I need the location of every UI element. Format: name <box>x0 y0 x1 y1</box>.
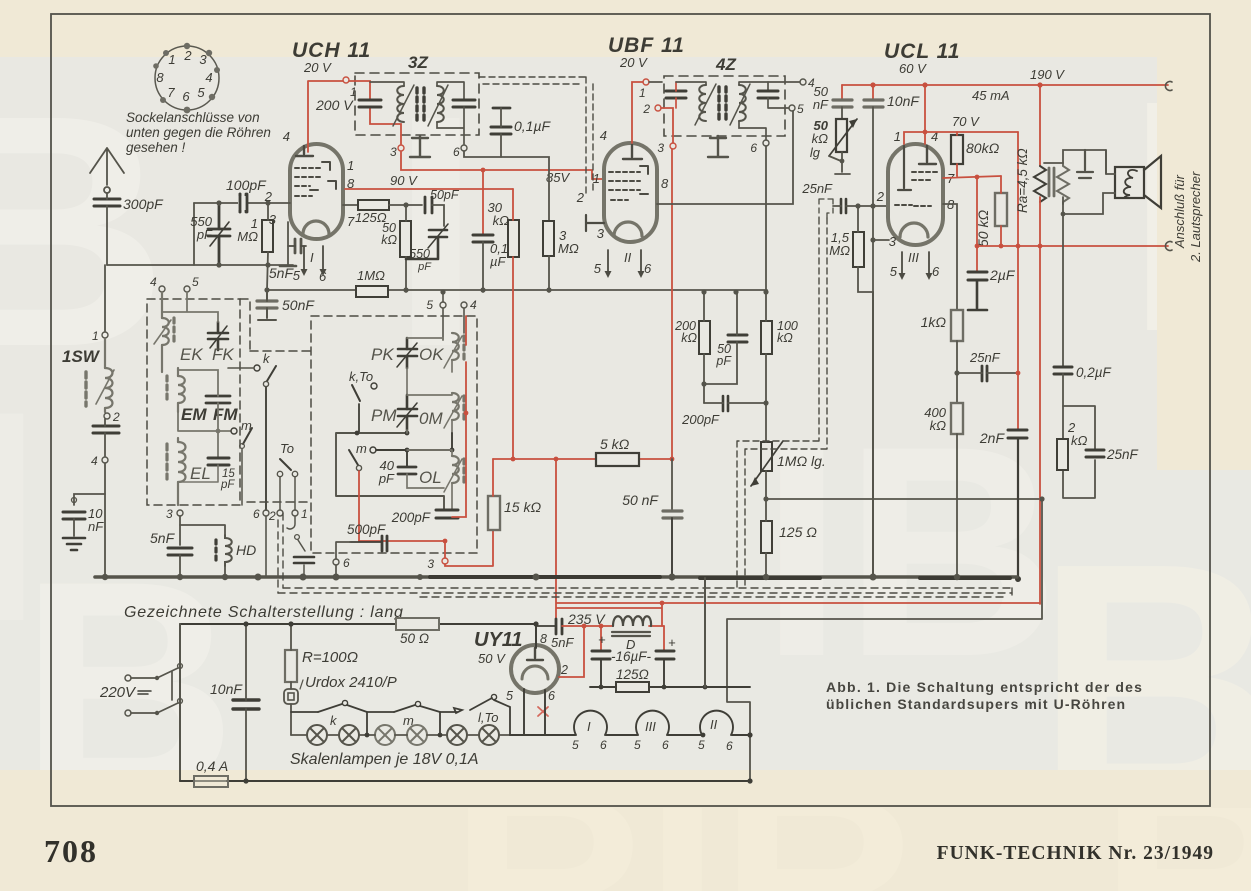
svg-text:2: 2 <box>576 190 585 205</box>
svg-text:8: 8 <box>156 70 164 85</box>
red wire pin7 <box>943 176 1001 178</box>
wire k to box <box>228 367 254 369</box>
fuse 0,4A <box>194 776 228 787</box>
svg-text:5: 5 <box>634 738 641 752</box>
wire EK-FK top <box>162 292 218 322</box>
pin7 wire <box>343 204 358 206</box>
capacitor 50nF on 1M line <box>257 301 277 308</box>
svg-text:200pF: 200pF <box>681 412 720 427</box>
red wire osc feedback <box>359 316 466 558</box>
svg-text:8: 8 <box>661 176 669 191</box>
svg-text:4: 4 <box>91 454 98 468</box>
svg-text:+: + <box>598 632 606 647</box>
tube UBF11 top cap <box>623 145 642 159</box>
tube UCL11 pin 5 6 arrows <box>899 252 933 280</box>
svg-text:3: 3 <box>166 507 173 521</box>
red wire 85V <box>401 152 603 179</box>
tube socket diagram <box>155 46 219 110</box>
coil 1SW <box>96 339 114 412</box>
svg-text:5: 5 <box>293 268 301 283</box>
resistor 125 ohm <box>358 200 389 210</box>
terminal hook bottom <box>1165 242 1172 251</box>
filament II <box>700 711 733 735</box>
4Z wire to t4 <box>768 81 800 83</box>
red drop to AF lines <box>556 459 1040 626</box>
wire EM FM <box>178 370 231 457</box>
svg-text:0M: 0M <box>419 409 443 428</box>
svg-text:2. Lautsprecher: 2. Lautsprecher <box>1188 171 1203 263</box>
speaker driver box <box>1115 167 1144 198</box>
terminal 4 of box <box>159 286 165 292</box>
svg-text:kΩ: kΩ <box>381 233 397 247</box>
svg-text:708: 708 <box>44 833 98 869</box>
coil EM <box>178 368 185 412</box>
svg-text:6: 6 <box>453 145 460 159</box>
svg-text:Abb. 1. Die Schaltung entsp: Abb. 1. Die Schaltung entspricht der des <box>826 679 1143 695</box>
svg-text:m: m <box>403 713 414 728</box>
svg-text:pF: pF <box>417 261 432 273</box>
svg-text:lg: lg <box>810 145 821 160</box>
capacitor 2nF <box>1017 373 1019 429</box>
red bus dots <box>870 82 875 87</box>
UY11 anode <box>527 648 543 660</box>
capacitor 25nF tone <box>1086 450 1104 457</box>
filter bottom wire <box>590 659 750 687</box>
tube UCH11 top cap <box>296 146 313 156</box>
caption Sockelanschluesse <box>126 110 271 155</box>
resistor 80k <box>951 135 963 164</box>
capacitor 5nF UY <box>556 619 562 634</box>
svg-text:Urdox 2410/P: Urdox 2410/P <box>305 674 397 691</box>
svg-text:4: 4 <box>600 128 607 143</box>
svg-text:2: 2 <box>560 663 568 677</box>
tube UBF11 cathode arc <box>614 222 642 236</box>
resistor 1,5M <box>853 232 864 267</box>
tube UBF11 pin 5 6 arrows <box>605 250 645 278</box>
svg-text:UY11: UY11 <box>474 629 523 651</box>
red wire top cap <box>924 85 926 144</box>
resistor 1M horizontal <box>356 286 388 297</box>
4Z terminal 6 <box>763 140 769 146</box>
svg-text:25nF: 25nF <box>1106 447 1139 462</box>
capacitor 300pF <box>94 199 120 206</box>
wire 10nF down <box>872 107 874 292</box>
trimmer FK <box>208 322 228 350</box>
circle terminal 10nF <box>72 498 77 503</box>
wires PK OK <box>407 338 452 395</box>
svg-text:2: 2 <box>112 410 120 424</box>
4Z dashed box <box>664 76 785 136</box>
red wire t3 to 15k <box>445 530 493 566</box>
red wire 30k <box>512 189 514 459</box>
svg-text:I: I <box>0 348 43 684</box>
capacitor 10nF mains <box>233 700 259 709</box>
capacitor 0,2uF <box>1054 367 1072 374</box>
dashed notch to k switch <box>240 299 312 351</box>
svg-text:5: 5 <box>192 275 199 289</box>
capacitor 25nF grid <box>841 199 846 213</box>
antenna <box>90 148 124 193</box>
svg-text:5: 5 <box>572 738 579 752</box>
trimmer PK <box>397 338 417 368</box>
tube UCL11 pin1 inner <box>898 146 911 190</box>
grid wire pin2 <box>194 202 290 204</box>
4Z wire to t5 <box>768 98 789 108</box>
capacitor 200pF coupling <box>723 396 728 411</box>
coil EL <box>178 438 186 505</box>
svg-text:kΩ: kΩ <box>777 331 793 345</box>
node 4 <box>102 457 108 463</box>
trimmer PM <box>397 395 417 430</box>
wire AF out <box>766 498 1042 500</box>
node 2 <box>104 413 110 419</box>
wire 15pF <box>178 465 218 482</box>
hook below terminal1 <box>287 516 295 529</box>
UY11 cathode arc <box>522 666 548 679</box>
svg-text:4: 4 <box>150 275 157 289</box>
svg-text:60 V: 60 V <box>899 61 927 76</box>
svg-text:0,2µF: 0,2µF <box>1076 365 1112 380</box>
svg-text:2µF: 2µF <box>989 267 1016 283</box>
power loop top wire <box>180 623 536 625</box>
resistor 1M vertical <box>262 220 273 252</box>
svg-text:2: 2 <box>268 509 276 523</box>
shield box 25nF <box>819 199 833 218</box>
svg-text:1kΩ: 1kΩ <box>921 314 947 330</box>
wire m contact <box>376 433 452 467</box>
svg-text:MΩ: MΩ <box>829 243 850 258</box>
resistor Ra zigzag <box>1039 85 1041 166</box>
svg-text:5: 5 <box>506 689 513 703</box>
svg-text:pF: pF <box>715 354 732 368</box>
svg-text:125 Ω: 125 Ω <box>779 524 817 540</box>
coil OK <box>444 333 462 368</box>
resistor 400k <box>951 403 963 434</box>
svg-text:UBF 11: UBF 11 <box>608 34 685 57</box>
svg-text:20 V: 20 V <box>619 55 648 70</box>
shielded lead dashes 3Z-UBF <box>479 77 593 195</box>
3Z secondary coil <box>428 85 448 126</box>
svg-text:4: 4 <box>283 129 290 144</box>
wire antenna down <box>106 193 108 265</box>
svg-text:1MΩ: 1MΩ <box>357 268 385 283</box>
dial lamps <box>307 725 359 745</box>
svg-text:6: 6 <box>644 261 652 276</box>
4Z right capacitor <box>758 91 778 98</box>
capacitor 10nF <box>872 85 874 99</box>
svg-text:1SW: 1SW <box>62 347 101 366</box>
4Z terminal 1 <box>643 79 649 85</box>
red wire AVC down <box>671 149 673 459</box>
4Z primary coil <box>695 84 716 125</box>
capacitor 50nF top <box>841 85 843 99</box>
wires OL <box>407 450 452 509</box>
svg-text:550: 550 <box>409 247 430 261</box>
svg-text:m: m <box>356 441 367 456</box>
wire left column <box>104 265 106 331</box>
resistor 200k <box>699 321 710 354</box>
svg-text:MΩ: MΩ <box>558 241 579 256</box>
svg-text:3: 3 <box>597 226 605 241</box>
svg-text:kΩ: kΩ <box>493 213 510 228</box>
svg-text:Gezeichnete Schalterstellung: Gezeichnete Schalterstellung : lang <box>124 604 404 621</box>
svg-text:6: 6 <box>662 738 669 752</box>
svg-text:6: 6 <box>750 141 757 155</box>
3Z dashed box <box>355 73 479 135</box>
coil EK <box>154 292 171 372</box>
svg-text:20 V: 20 V <box>303 60 332 75</box>
wire top to UY11 <box>535 624 537 648</box>
3Z terminal 3 <box>398 145 404 151</box>
wire terminal3 to 5nF <box>179 516 181 545</box>
node 1 <box>102 332 108 338</box>
tube UBF11 diode plate <box>586 215 604 231</box>
box terminal 5 <box>440 302 446 308</box>
coil 1SW core dashes <box>84 372 87 406</box>
svg-text:6: 6 <box>548 689 555 703</box>
svg-text:I: I <box>587 719 591 734</box>
wire terminal6 to bus <box>265 516 267 577</box>
resistor 30k red feed <box>508 220 519 257</box>
terminal hook top <box>1165 81 1172 90</box>
svg-text:5 kΩ: 5 kΩ <box>600 436 630 452</box>
transformer top wire <box>1044 150 1106 174</box>
svg-text:MΩ: MΩ <box>237 229 258 244</box>
svg-text:PK: PK <box>371 345 394 364</box>
speaker driver coil <box>1124 170 1137 198</box>
4Z terminal 3 <box>670 143 676 149</box>
svg-text:50 nF: 50 nF <box>622 492 659 508</box>
terminal 6 osc <box>333 559 339 565</box>
4Z terminal 4 <box>800 79 806 85</box>
resistor 50k grey <box>995 193 1007 226</box>
wire t6 down to detector line <box>765 146 767 292</box>
svg-text:III: III <box>908 250 919 265</box>
capacitor 200pF osc <box>436 510 458 518</box>
wire HD <box>180 525 225 577</box>
3Z terminal 6 <box>461 145 467 151</box>
wire AF line join <box>1039 496 1044 501</box>
core dashes OL <box>462 459 465 482</box>
svg-text:3: 3 <box>889 234 897 249</box>
svg-text:5nF: 5nF <box>150 530 176 546</box>
capacitor 40pF <box>398 467 416 474</box>
capacitor near bus <box>294 557 314 563</box>
lamp shorting switch l,To <box>470 698 492 710</box>
tube UCH11 grids <box>295 162 336 196</box>
electrolytic 16uF right <box>663 626 665 650</box>
3Z secondary bottom <box>437 107 464 144</box>
svg-text:HD: HD <box>236 542 256 558</box>
svg-text:Skalenlampen je 18V 0,1A: Skalenlampen je 18V 0,1A <box>290 751 479 768</box>
urdox symbol <box>284 689 298 704</box>
terminal 2 <box>277 510 283 516</box>
tube UBF11 envelope <box>604 143 657 242</box>
filament I <box>574 711 607 735</box>
svg-text:1MΩ lg.: 1MΩ lg. <box>777 453 826 469</box>
switch k <box>254 365 260 371</box>
svg-text:500pF: 500pF <box>347 522 386 537</box>
core dashes OM <box>462 396 465 419</box>
svg-text:0,1µF: 0,1µF <box>514 118 552 134</box>
dashed link to osc box <box>247 501 308 503</box>
svg-text:4Z: 4Z <box>715 55 736 74</box>
svg-text:3Z: 3Z <box>408 53 428 72</box>
choke HD <box>225 535 232 566</box>
capacitor 10nF left <box>63 512 85 519</box>
svg-text:kΩ: kΩ <box>1071 433 1088 448</box>
tube UCL11 envelope <box>888 144 943 245</box>
svg-text:3: 3 <box>199 52 207 67</box>
resistor R=100 urdox <box>285 650 297 682</box>
filament chain <box>545 734 750 736</box>
svg-text:EL: EL <box>190 464 211 483</box>
wire down to bus <box>872 292 874 577</box>
wire grid node down <box>193 203 195 265</box>
wire bus to filter <box>704 578 706 687</box>
svg-text:50 V: 50 V <box>478 651 506 666</box>
svg-text:k,To: k,To <box>349 369 373 384</box>
svg-text:3: 3 <box>657 141 664 155</box>
terminal 3 <box>177 510 183 516</box>
svg-text:Ra=4,5 kΩ: Ra=4,5 kΩ <box>1015 148 1030 213</box>
red wire 246 row <box>977 245 1168 247</box>
svg-text:-16µF-: -16µF- <box>611 649 652 664</box>
trimmer 550pF <box>208 203 230 265</box>
junction 3M detector <box>546 287 551 292</box>
4Z secondary coil <box>730 84 750 125</box>
red wire t2 to t3 <box>661 108 673 143</box>
resistor 50 ohm <box>396 618 439 630</box>
tube UY11 <box>511 645 559 693</box>
svg-text:10nF: 10nF <box>887 93 920 109</box>
svg-text:5: 5 <box>890 264 898 279</box>
svg-text:6: 6 <box>932 264 940 279</box>
svg-text:III: III <box>645 719 656 734</box>
svg-text:1: 1 <box>894 129 901 144</box>
svg-text:25nF: 25nF <box>969 350 1001 365</box>
box terminal 4 <box>461 302 467 308</box>
wire 10nF to ground <box>73 519 75 536</box>
svg-text:µF: µF <box>490 254 506 269</box>
svg-text:10nF: 10nF <box>210 681 243 697</box>
svg-text:kΩ: kΩ <box>930 418 947 433</box>
svg-text:6: 6 <box>253 507 260 521</box>
electrolytic 16uF left <box>600 626 602 650</box>
tube UCH11 pin labels <box>264 129 355 284</box>
svg-text:To: To <box>280 441 294 456</box>
transformer cap symbol <box>1077 150 1093 178</box>
3Z core dashes <box>417 88 424 120</box>
power loop bottom wire <box>180 780 750 782</box>
bus junction dots <box>102 574 960 581</box>
svg-text:1: 1 <box>639 86 646 100</box>
zigzag primary speaker <box>1057 163 1069 204</box>
resistor 5k <box>596 453 639 466</box>
capacitor 0,1uF top <box>491 108 511 134</box>
resistor 1k <box>951 310 963 341</box>
red wire 70V <box>904 132 1018 144</box>
wire node4 to bus <box>104 463 106 577</box>
svg-text:pF: pF <box>196 227 213 242</box>
svg-text:FM: FM <box>213 405 238 424</box>
wire 5nF to bus <box>179 555 181 577</box>
svg-text:6: 6 <box>182 89 190 104</box>
svg-text:25nF: 25nF <box>801 181 833 196</box>
lamp wire <box>291 734 510 736</box>
svg-text:kΩ: kΩ <box>681 331 697 345</box>
capacitor 100pF <box>240 194 246 212</box>
capacitor 5nF <box>168 548 192 555</box>
svg-text:pF: pF <box>220 479 235 491</box>
svg-text:+: + <box>668 635 676 650</box>
wires terminals into box <box>443 292 464 340</box>
resistor 125 cathode <box>761 521 772 553</box>
red x mark <box>538 707 548 716</box>
switch m <box>231 428 237 434</box>
tube UCL11 pin labels <box>876 129 955 279</box>
resistor 50k <box>400 221 411 257</box>
wire 3Z to 3M <box>464 151 549 221</box>
lamp shorting switch k <box>318 704 342 712</box>
tube UBF11 pin labels <box>576 128 669 276</box>
svg-text:1: 1 <box>92 329 99 343</box>
resistor 125 ohm filter <box>616 682 649 692</box>
tube UCH11 pin 5 6 arrows <box>301 246 327 276</box>
svg-text:7: 7 <box>347 214 355 229</box>
coil OM <box>444 393 462 428</box>
dashed AF bus lines <box>278 513 1012 597</box>
wire to node 4 <box>104 419 106 456</box>
capacitor 50nF det out <box>671 459 673 510</box>
svg-text:IB: IB <box>760 383 1060 719</box>
svg-text:300pF: 300pF <box>123 196 164 212</box>
red wire 3Z primary <box>349 81 401 144</box>
4Z wires top <box>649 82 768 91</box>
tube UCH11 cathode arc <box>303 221 329 234</box>
svg-text:pF: pF <box>378 471 395 486</box>
socket pin numbers <box>156 48 212 104</box>
svg-text:200pF: 200pF <box>391 510 431 525</box>
svg-text:220V: 220V <box>99 684 137 701</box>
power loop left wire <box>179 624 181 781</box>
svg-text:2nF: 2nF <box>979 430 1006 446</box>
capacitor below 1SW <box>93 426 119 433</box>
cathode return bar <box>280 265 296 268</box>
svg-text:45 mA: 45 mA <box>972 88 1010 103</box>
coil OL <box>444 456 462 492</box>
resistor 100k <box>761 321 772 354</box>
socket pin dots <box>153 43 220 114</box>
capacitor 500pF <box>382 536 387 551</box>
svg-text:4: 4 <box>470 298 477 312</box>
capacitor 0,1uF red line <box>482 170 484 234</box>
svg-text:50nF: 50nF <box>282 297 315 313</box>
capacitor 50pF det <box>728 335 747 342</box>
svg-text:II: II <box>624 250 632 265</box>
svg-text:1: 1 <box>168 52 175 67</box>
capacitor 50pF series <box>425 197 432 213</box>
svg-text:5nF: 5nF <box>269 265 295 281</box>
red osc supply line <box>493 458 672 460</box>
svg-text:I: I <box>310 250 314 265</box>
wire k common down <box>265 387 267 510</box>
4Z left capacitor <box>666 91 686 98</box>
To contact near bus <box>298 540 305 577</box>
svg-text:PM: PM <box>371 406 397 425</box>
wire cathode pin3 <box>287 222 289 265</box>
svg-text:EK: EK <box>180 345 203 364</box>
